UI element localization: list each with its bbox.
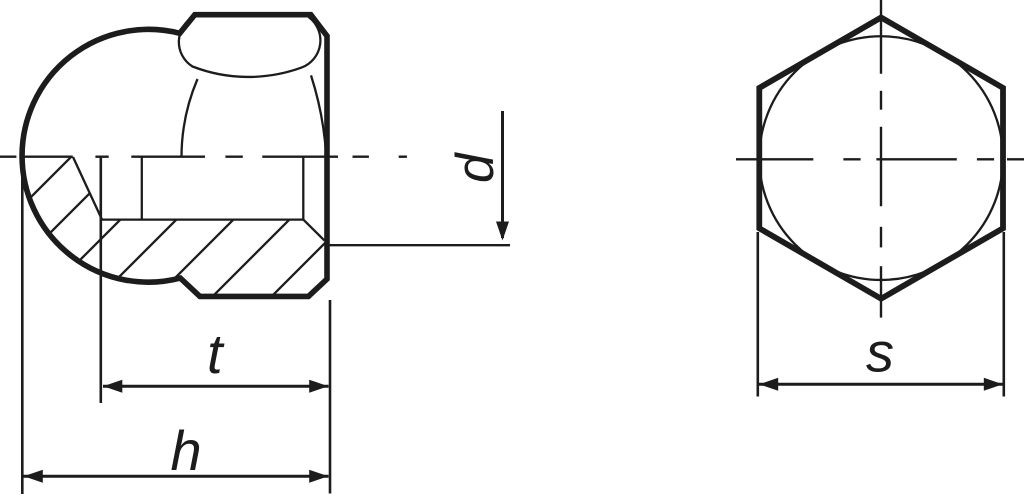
s arrow right bbox=[984, 378, 1003, 391]
hatch line 5 bbox=[143, 130, 323, 310]
t/h right extension line bbox=[329, 300, 332, 494]
cap nut outline (left view, thick) bbox=[22, 15, 327, 297]
svg-text:t: t bbox=[207, 322, 225, 385]
left hex corner curve bbox=[182, 79, 198, 157]
thread bore wall bbox=[102, 218, 303, 220]
hatch line 3 bbox=[30, 130, 210, 310]
svg-text:h: h bbox=[171, 419, 202, 482]
s dimension line bbox=[759, 383, 1003, 386]
cavity cone slant bbox=[73, 157, 102, 220]
h arrow left bbox=[24, 470, 43, 483]
s extension line right bbox=[1002, 232, 1005, 397]
vertical centre line (hex) bbox=[880, 0, 882, 318]
hatching (section lines, left view) bbox=[0, 130, 438, 310]
h extension line bbox=[21, 158, 24, 494]
d leader line bbox=[327, 244, 510, 246]
svg-text:d: d bbox=[446, 152, 505, 183]
s arrow left bbox=[759, 378, 778, 391]
thread end line bbox=[141, 157, 143, 220]
hexagon (right view, thick) bbox=[759, 18, 1003, 299]
s extension line left bbox=[756, 232, 759, 397]
t arrow right bbox=[309, 380, 328, 393]
hatch line 2 bbox=[0, 130, 153, 310]
chamfer circle bbox=[759, 36, 1003, 280]
horizontal centre line (hex) bbox=[736, 158, 1024, 160]
top chamfer loaf (thin) bbox=[179, 16, 321, 77]
d arrow bbox=[496, 222, 509, 241]
face countersink chamfer bbox=[303, 220, 324, 241]
h arrow right bbox=[309, 470, 328, 483]
right hex corner curve bbox=[311, 75, 326, 156]
t arrow left bbox=[103, 380, 122, 393]
t dimension line bbox=[103, 385, 329, 388]
hatch line 6 bbox=[199, 130, 379, 310]
hatch line 7 bbox=[258, 130, 438, 310]
svg-text:s: s bbox=[866, 321, 894, 384]
hatch line 1 bbox=[0, 130, 98, 310]
h dimension line bbox=[24, 475, 329, 478]
t extension line bbox=[100, 157, 103, 403]
bore end line at face bbox=[302, 157, 304, 220]
centre line (left view) bbox=[0, 155, 407, 157]
d dimension line bbox=[501, 111, 504, 238]
hatch line 4 bbox=[86, 130, 266, 310]
